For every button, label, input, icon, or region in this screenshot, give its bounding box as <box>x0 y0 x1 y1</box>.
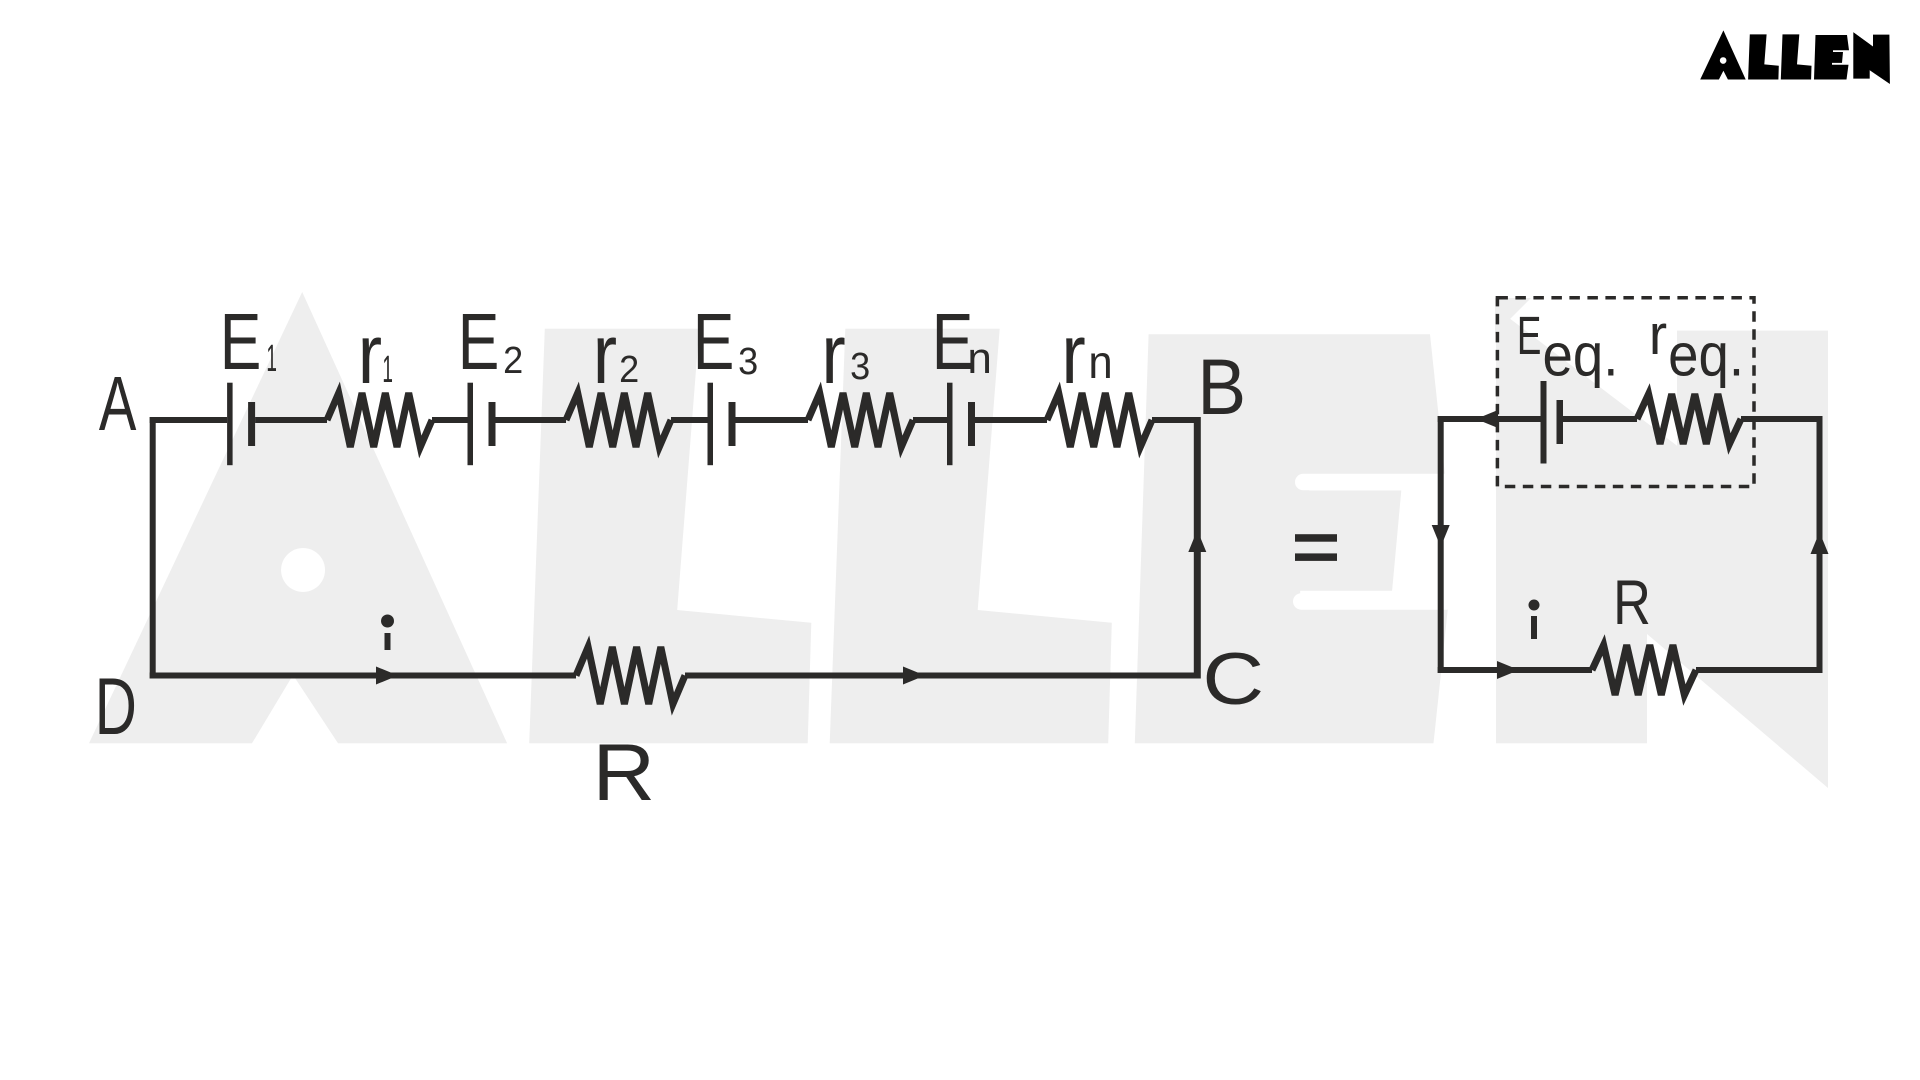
svg-text:2: 2 <box>503 338 523 381</box>
svg-text:A: A <box>99 361 137 447</box>
svg-text:3: 3 <box>850 344 870 387</box>
svg-text:r: r <box>1061 307 1085 401</box>
svg-text:E: E <box>220 298 262 387</box>
svg-text:E: E <box>693 298 735 387</box>
svg-text:C: C <box>1202 638 1264 720</box>
svg-text:r: r <box>1649 302 1667 366</box>
svg-text:R: R <box>593 727 656 818</box>
svg-text:B: B <box>1197 343 1246 431</box>
svg-text:1: 1 <box>382 349 393 391</box>
svg-text:eq.: eq. <box>1668 322 1744 389</box>
svg-text:R: R <box>1613 569 1651 639</box>
svg-text:2: 2 <box>619 347 639 390</box>
svg-text:3: 3 <box>738 339 758 382</box>
svg-text:1: 1 <box>266 338 277 380</box>
svg-text:r: r <box>593 307 617 401</box>
svg-text:n: n <box>1088 336 1112 388</box>
svg-text:D: D <box>95 661 137 752</box>
svg-text:E: E <box>1517 305 1541 366</box>
svg-text:n: n <box>967 334 991 383</box>
svg-text:eq.: eq. <box>1543 322 1619 389</box>
svg-text:r: r <box>821 307 845 401</box>
svg-text:r: r <box>358 307 382 401</box>
svg-text:E: E <box>458 298 500 387</box>
